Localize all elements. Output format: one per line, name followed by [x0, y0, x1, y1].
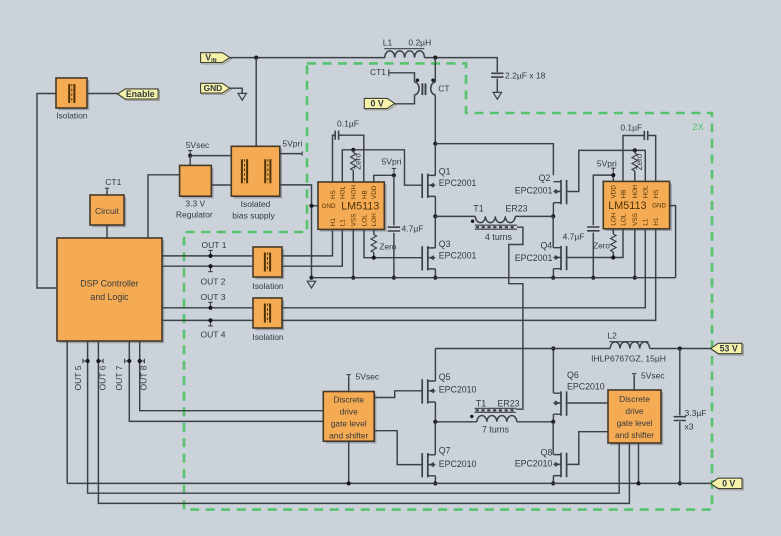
inductor L2 label underline [609, 341, 648, 343]
transistor Q7 EPC2010 [422, 453, 435, 477]
CT core bars [422, 83, 425, 95]
tick OUT4 [208, 321, 212, 326]
svg-text:0 V: 0 V [722, 478, 735, 488]
svg-text:OUT 1: OUT 1 [202, 240, 227, 250]
node U1 VSS at rail [351, 276, 355, 280]
svg-text:GND: GND [652, 203, 666, 210]
wire T1 left lead [435, 215, 475, 217]
wire U2 HOH stub [634, 150, 636, 181]
isolator U-iso2 box [253, 247, 284, 279]
svg-text:LOL: LOL [361, 214, 368, 226]
sense winding lower lead to 0V flag [395, 95, 415, 104]
svg-text:LOL: LOL [620, 213, 627, 225]
wire 4.7uF left to 0V rail [393, 233, 395, 278]
wire U2 VDD to 5Vpri node [593, 175, 613, 225]
tick OUT2 [208, 267, 212, 272]
wire bias supply top to VIN rail [255, 58, 257, 147]
svg-text:5Vsec: 5Vsec [355, 371, 379, 381]
svg-text:drive: drive [625, 406, 643, 416]
tick OUT7 [125, 359, 130, 363]
wire OUT2 [162, 265, 253, 267]
svg-text:T1: T1 [476, 398, 486, 408]
tick OUT5 [83, 359, 88, 363]
wire junction down to Q1 drain [434, 144, 436, 176]
wire secondary 0V rail [67, 482, 710, 484]
inductor L2 [610, 342, 649, 349]
svg-text:Isolated: Isolated [241, 199, 271, 209]
svg-text:HOL: HOL [340, 186, 347, 199]
svg-text:Circuit: Circuit [95, 206, 120, 216]
wire 5Vsec down to regulator [189, 156, 191, 166]
svg-text:LM5113: LM5113 [608, 200, 646, 212]
wire Q1 source to T1 node [434, 196, 436, 216]
transformer T1 secondary winding 7 turns [477, 416, 517, 422]
net flag 0V bottom [711, 478, 744, 490]
node 3.3uF top [678, 346, 682, 350]
svg-text:H1: H1 [330, 218, 337, 227]
svg-text:Isolation: Isolation [252, 332, 284, 342]
wire DSP gnd return pin [66, 341, 68, 483]
wire right driver pin to rail [638, 443, 640, 483]
wire OUT3 to right LM5113 L1 pin [282, 229, 645, 308]
svg-text:OUT 4: OUT 4 [201, 329, 226, 339]
resistor Zero U1 HOH [351, 153, 356, 171]
svg-text:L1: L1 [643, 218, 650, 226]
node OUT5 tick [86, 359, 90, 363]
svg-text:5Vpri: 5Vpri [597, 158, 617, 168]
wire OUT7 run [129, 341, 323, 421]
svg-text:53 V: 53 V [720, 343, 738, 353]
wire U1 LOH stub [373, 229, 375, 257]
svg-text:ER23: ER23 [505, 204, 527, 214]
svg-text:EPC2001: EPC2001 [439, 250, 477, 260]
svg-text:5Vpri: 5Vpri [382, 156, 402, 166]
wire 5Vsec to bias supply [190, 155, 231, 157]
wire U1 VDD to 5Vpri node [374, 175, 394, 182]
wire T1 bottom left lead [435, 421, 477, 423]
svg-text:L2: L2 [607, 330, 617, 340]
tick 5Vsec top [188, 151, 192, 156]
capacitor 0.1uF bootstrap right [644, 131, 647, 140]
ground symbol at GND flag [238, 93, 246, 100]
svg-text:LOH: LOH [611, 212, 618, 225]
tick OUT1 [208, 250, 212, 255]
wire OUT3 [162, 307, 253, 309]
wire OUT8 run [140, 341, 324, 411]
ground symbol below 2.2uF [493, 92, 501, 99]
wire CT1 tick to circuit box [106, 191, 108, 196]
gate driver U2 LM5113 right [603, 181, 672, 231]
node L1/CT junction [433, 56, 437, 60]
svg-text:Q7: Q7 [439, 446, 451, 456]
node 5Vpri right [611, 173, 615, 177]
tick after CT1 label [388, 69, 390, 76]
node U2 HOH resistor tap [633, 148, 637, 152]
wire L2 to 53V flag [650, 348, 711, 350]
wire U1 VSS to rail [352, 229, 354, 277]
wire Q5 source to T1 bottom node [434, 402, 436, 422]
wire secondary switch rail [435, 348, 610, 350]
node U2 LOH resistor tap bottom [611, 255, 615, 259]
svg-text:OUT 7: OUT 7 [114, 365, 124, 390]
svg-text:Zero: Zero [635, 153, 644, 170]
svg-text:Zero: Zero [593, 242, 610, 251]
node U1 LOH resistor tap bottom [372, 256, 376, 260]
wire OUT4 to right LM5113 H1 pin [282, 229, 656, 320]
svg-text:VDD: VDD [611, 185, 618, 199]
net flag GND [201, 83, 232, 94]
svg-text:2X: 2X [692, 122, 704, 133]
svg-text:gate level: gate level [617, 418, 653, 428]
wire 5Vsec to right driver box [633, 376, 635, 390]
wire U1 HB pin to bootstrap cap [339, 135, 364, 182]
svg-text:3.3µF: 3.3µF [685, 408, 707, 418]
node OUT1 tick [208, 254, 212, 258]
wire 5Vpri node to 4.7uF [393, 175, 395, 225]
svg-text:Isolation: Isolation [252, 281, 284, 291]
node U1 gnd/bias junction [309, 204, 313, 208]
gate driver U1 LM5113 left [318, 182, 387, 232]
node 4.7uF left at rail [392, 276, 396, 280]
node U1 HOH resistor tap [351, 148, 355, 152]
svg-text:HS: HS [653, 190, 660, 199]
transformer T1 primary winding 4 turns [475, 216, 515, 222]
node OUT2 tick [208, 264, 212, 268]
tick 5Vsec left driver [347, 375, 351, 380]
isolator U-iso2 transformer symbol [265, 253, 270, 272]
svg-text:OUT 2: OUT 2 [201, 276, 226, 286]
tick 5Vpri U2 [611, 168, 615, 173]
capacitor 3.3uF x3 [674, 417, 686, 421]
circuit block box [90, 195, 126, 227]
capacitor 0.1uF bootstrap left [335, 131, 338, 140]
svg-text:gate level: gate level [331, 419, 367, 429]
transformer T1 polarity dot bottom [470, 415, 473, 418]
tick CT1 circuit [105, 188, 109, 193]
capacitor 4.7uF right [587, 227, 599, 231]
wire OUT1 to H1 pin [282, 229, 333, 256]
svg-text:EPC2001: EPC2001 [515, 185, 553, 195]
inductor L1 label underline [384, 48, 424, 50]
wire 5Vsec to left driver box [348, 377, 350, 392]
node T1 primary right [551, 214, 555, 218]
svg-text:EPC2001: EPC2001 [515, 253, 553, 263]
node OUT4 tick [208, 318, 212, 322]
tick 5Vpri at bias output [298, 151, 303, 155]
bias supply transformer symbol 1 [242, 159, 247, 183]
wire left driver to Q5 gate [374, 391, 422, 398]
svg-text:Enable: Enable [126, 89, 155, 99]
wire Q5 drain to top secondary rail [434, 349, 436, 382]
svg-text:H1: H1 [653, 217, 660, 226]
svg-text:Q5: Q5 [439, 372, 451, 382]
tick 5Vsec right driver [632, 374, 636, 379]
svg-text:HB: HB [361, 190, 368, 199]
svg-text:L1: L1 [383, 37, 393, 47]
node OUT7 tick [127, 359, 131, 363]
svg-text:5Vsec: 5Vsec [641, 370, 665, 380]
node 5Vpri left [392, 173, 396, 177]
wire right driver to Q6 gate [567, 402, 608, 404]
svg-text:ER23: ER23 [497, 398, 519, 408]
node Q6 drain at rail [551, 346, 555, 350]
tick OUT3 [208, 302, 212, 307]
wire CT1 label to sense winding [389, 73, 414, 82]
node left driver at rail [347, 481, 351, 485]
wire VIN rail to L1 [230, 57, 385, 59]
svg-text:LOH: LOH [371, 213, 378, 226]
transistor Q3 EPC2001 [422, 246, 435, 270]
node U2 VSS at rail [633, 276, 637, 280]
svg-text:and shifter: and shifter [329, 431, 368, 441]
svg-text:EPC2010: EPC2010 [567, 381, 605, 391]
wire GND flag to ground [230, 88, 242, 93]
svg-text:Q4: Q4 [540, 240, 552, 250]
CT polarity dot left [416, 79, 419, 82]
svg-text:T1: T1 [473, 204, 483, 214]
node right driver at rail [636, 481, 640, 485]
wire U2 LOL to Q4 gate [567, 229, 623, 258]
regulator 3.3V box [180, 165, 214, 198]
svg-text:DSP Controller: DSP Controller [80, 279, 139, 289]
node Q3 source at rail [433, 276, 437, 280]
svg-text:VSS: VSS [351, 214, 358, 227]
node 4.7uF right at rail [591, 276, 595, 280]
transistor Q1 EPC2001 [422, 174, 435, 198]
node VIN-bias junction [254, 56, 258, 60]
wire U2 GND to rail [670, 206, 676, 278]
capacitor 4.7uF left [388, 227, 400, 231]
svg-text:Q8: Q8 [541, 447, 553, 457]
isolator U-iso1 transformer symbol [69, 84, 74, 103]
node OUT8 tick [138, 359, 142, 363]
wire U1 HOH stub [352, 150, 354, 182]
wire isolation1 right to Enable flag [87, 93, 118, 95]
svg-text:OUT 5: OUT 5 [73, 365, 83, 390]
svg-text:Isolation: Isolation [56, 111, 88, 121]
wire Q3 source to rail [434, 269, 436, 278]
green dashed boundary of 2X power-stage region [184, 63, 712, 509]
svg-text:Q6: Q6 [567, 370, 579, 380]
svg-text:GND: GND [322, 203, 336, 210]
isolator U-iso3 box [253, 298, 284, 330]
svg-text:4.7µF: 4.7µF [402, 224, 424, 234]
svg-text:0.1µF: 0.1µF [337, 118, 359, 128]
svg-text:drive: drive [340, 407, 358, 417]
node OUT6 tick [96, 359, 100, 363]
svg-text:EPC2010: EPC2010 [439, 459, 477, 469]
wire regulator left to DSP top [148, 175, 180, 238]
isolated bias supply box [231, 146, 282, 198]
svg-text:OUT 8: OUT 8 [139, 365, 149, 390]
tick OUT6 [99, 359, 104, 363]
node T1 secondary right [551, 420, 555, 424]
node T1 secondary left [433, 420, 437, 424]
wire U2 HOL to Q2 gate [567, 150, 646, 191]
wire OUT6 run [98, 341, 629, 503]
transistor Q2 EPC2001 [553, 180, 566, 204]
wire Q6 source to T1 bottom right [552, 414, 554, 422]
wire bias supply 0V output to LM5113 gnd node [280, 185, 312, 206]
CT main winding arc on VIN line [431, 82, 436, 95]
wire L1 to CT node and 2.2uF corner [425, 58, 498, 73]
wire junction to Q2 drain [435, 144, 553, 176]
wire U1 HOL to Q1 gate [342, 150, 422, 185]
svg-text:L1: L1 [340, 219, 347, 227]
wire left driver to Q7 gate [374, 431, 422, 465]
svg-text:0 V: 0 V [371, 98, 384, 108]
svg-text:Discrete: Discrete [619, 394, 650, 404]
wire Q7 source to 0V rail [434, 476, 436, 484]
wire T1 node to Q3 drain [434, 216, 436, 248]
svg-text:EPC2010: EPC2010 [515, 459, 553, 469]
svg-text:x3: x3 [685, 421, 694, 431]
wire U2 HB pin to bootstrap cap [623, 136, 644, 182]
node CT bottom junction [433, 142, 437, 146]
svg-text:Q3: Q3 [439, 239, 451, 249]
wire U1 LOL to Q3 gate [364, 229, 422, 257]
wire OUT1 [162, 255, 253, 257]
resistor Zero U2 LOH [611, 234, 616, 252]
svg-text:Q2: Q2 [539, 173, 551, 183]
transistor Q8 EPC2010 [553, 453, 566, 477]
svg-text:0.1µF: 0.1µF [620, 122, 642, 132]
wire U2 VSS to rail [634, 229, 636, 278]
svg-text:VSS: VSS [632, 213, 639, 226]
wire core link top to bottom [509, 227, 523, 409]
wire right driver to Q8 gate [567, 432, 608, 465]
svg-text:5Vpri: 5Vpri [282, 139, 302, 149]
wire 4.7uF right to rail [592, 233, 594, 278]
node OUT3 tick [208, 306, 212, 310]
node Q8 source at rail [551, 481, 555, 485]
isolator U-iso3 transformer symbol [265, 304, 270, 323]
svg-text:and Logic: and Logic [90, 292, 129, 302]
wire Q2 source to T1 right node [552, 203, 554, 217]
CT polarity dot right [431, 79, 434, 82]
svg-text:HOH: HOH [632, 184, 639, 198]
svg-text:IHLP6767GZ, 15µH: IHLP6767GZ, 15µH [591, 353, 666, 363]
wire CT to switch junction [434, 95, 436, 144]
wire U2 HS pin to bootstrap cap [648, 136, 656, 182]
wire bias supply 5Vpri output [280, 153, 302, 155]
svg-text:HOH: HOH [351, 185, 358, 199]
wire 2.2uF to ground [496, 78, 498, 92]
wire Q4 source to rail [552, 269, 554, 278]
DSP controller box [57, 238, 164, 343]
net flag 53V [711, 343, 744, 355]
discrete drive level shifter left box [323, 392, 376, 444]
svg-text:VDD: VDD [371, 185, 378, 199]
svg-text:HOL: HOL [643, 185, 650, 198]
svg-text:HS: HS [330, 190, 337, 199]
wire OUT5 run [88, 341, 620, 493]
node 3.3uF bottom [678, 481, 682, 485]
wire OUT2 to L1 pin [282, 229, 342, 266]
wire OUT4 [162, 319, 253, 321]
svg-text:CT1: CT1 [370, 67, 386, 77]
svg-text:Zero: Zero [380, 242, 397, 251]
transformer T1 polarity dot top [471, 220, 474, 223]
wire T1 bottom right lead [517, 421, 553, 423]
inductor L1 [385, 51, 425, 58]
svg-text:OUT 6: OUT 6 [98, 365, 108, 390]
wire 3.3uF cap branch [679, 349, 681, 484]
wire top bridge 0V rail [312, 277, 676, 279]
bias supply transformer symbol 2 [265, 159, 270, 183]
discrete drive level shifter right box [608, 390, 663, 445]
wire U2 LOH stub [612, 229, 614, 258]
node Q7 source at rail [433, 481, 437, 485]
svg-text:Discrete: Discrete [333, 395, 364, 405]
resistor Zero U2 HOH [632, 153, 637, 171]
svg-text:Zero: Zero [354, 153, 363, 170]
wire regulator right to bias supply [211, 184, 231, 186]
wire Q8 source to rail [552, 476, 554, 484]
wire U1 GND pin to rail [312, 206, 319, 278]
wire T1 right lead [515, 215, 553, 217]
svg-text:3.3 V: 3.3 V [185, 198, 205, 208]
wire isolation1 left to DSP left edge [37, 94, 57, 289]
svg-text:0.2µH: 0.2µH [408, 37, 431, 47]
wire left driver bottom to rail [348, 441, 350, 483]
transformer T1 core bar top [475, 225, 517, 229]
capacitor 2.2uF x18 [491, 73, 503, 77]
wire Q6 drain to secondary rail [552, 349, 554, 394]
svg-text:Q1: Q1 [439, 166, 451, 176]
svg-text:Regulator: Regulator [176, 210, 213, 220]
svg-text:4.7µF: 4.7µF [563, 232, 585, 242]
svg-text:EPC2010: EPC2010 [439, 384, 477, 394]
transistor Q4 EPC2001 [553, 246, 566, 270]
wire T1 bottom right to Q8 drain [552, 422, 554, 455]
svg-text:and shifter: and shifter [615, 430, 654, 440]
wire VIN junction down to CT [434, 58, 436, 83]
node 5Vsec [188, 154, 192, 158]
svg-text:HB: HB [620, 190, 627, 199]
net flag VIN [201, 53, 232, 65]
tick 5Vpri U1 [392, 168, 396, 173]
svg-text:EPC2001: EPC2001 [439, 178, 477, 188]
wire U1 HS pin to bootstrap cap [333, 135, 335, 182]
svg-text:OUT 3: OUT 3 [201, 292, 226, 302]
svg-text:CT1: CT1 [105, 177, 121, 187]
wire circuit to DSP [106, 225, 108, 238]
transistor Q5 EPC2010 [422, 379, 435, 403]
CT sense winding arc [415, 82, 420, 95]
transformer T1 core bar bottom [475, 408, 516, 412]
node Q4 source at rail [551, 276, 555, 280]
svg-text:7 turns: 7 turns [482, 424, 509, 434]
svg-text:5Vsec: 5Vsec [186, 140, 210, 150]
wire T1 bottom node to Q7 drain [434, 422, 436, 455]
svg-text:GND: GND [204, 83, 223, 93]
wire T1 right node to Q4 drain [552, 216, 554, 247]
node rail ground left [309, 276, 313, 280]
transistor Q6 EPC2010 [553, 391, 566, 415]
ground symbol on 0V rail [307, 281, 315, 288]
svg-text:LM5113: LM5113 [341, 201, 379, 213]
net flag 0V top [364, 98, 396, 110]
tick OUT8 [140, 359, 145, 363]
net flag Enable [118, 89, 160, 101]
svg-text:2.2µF x 18: 2.2µF x 18 [505, 71, 546, 81]
node T1 primary left [433, 214, 437, 218]
svg-text:bias supply: bias supply [232, 210, 275, 220]
isolator U-iso1 box [56, 78, 89, 110]
svg-text:4 turns: 4 turns [485, 232, 512, 242]
svg-text:CT: CT [438, 83, 449, 93]
